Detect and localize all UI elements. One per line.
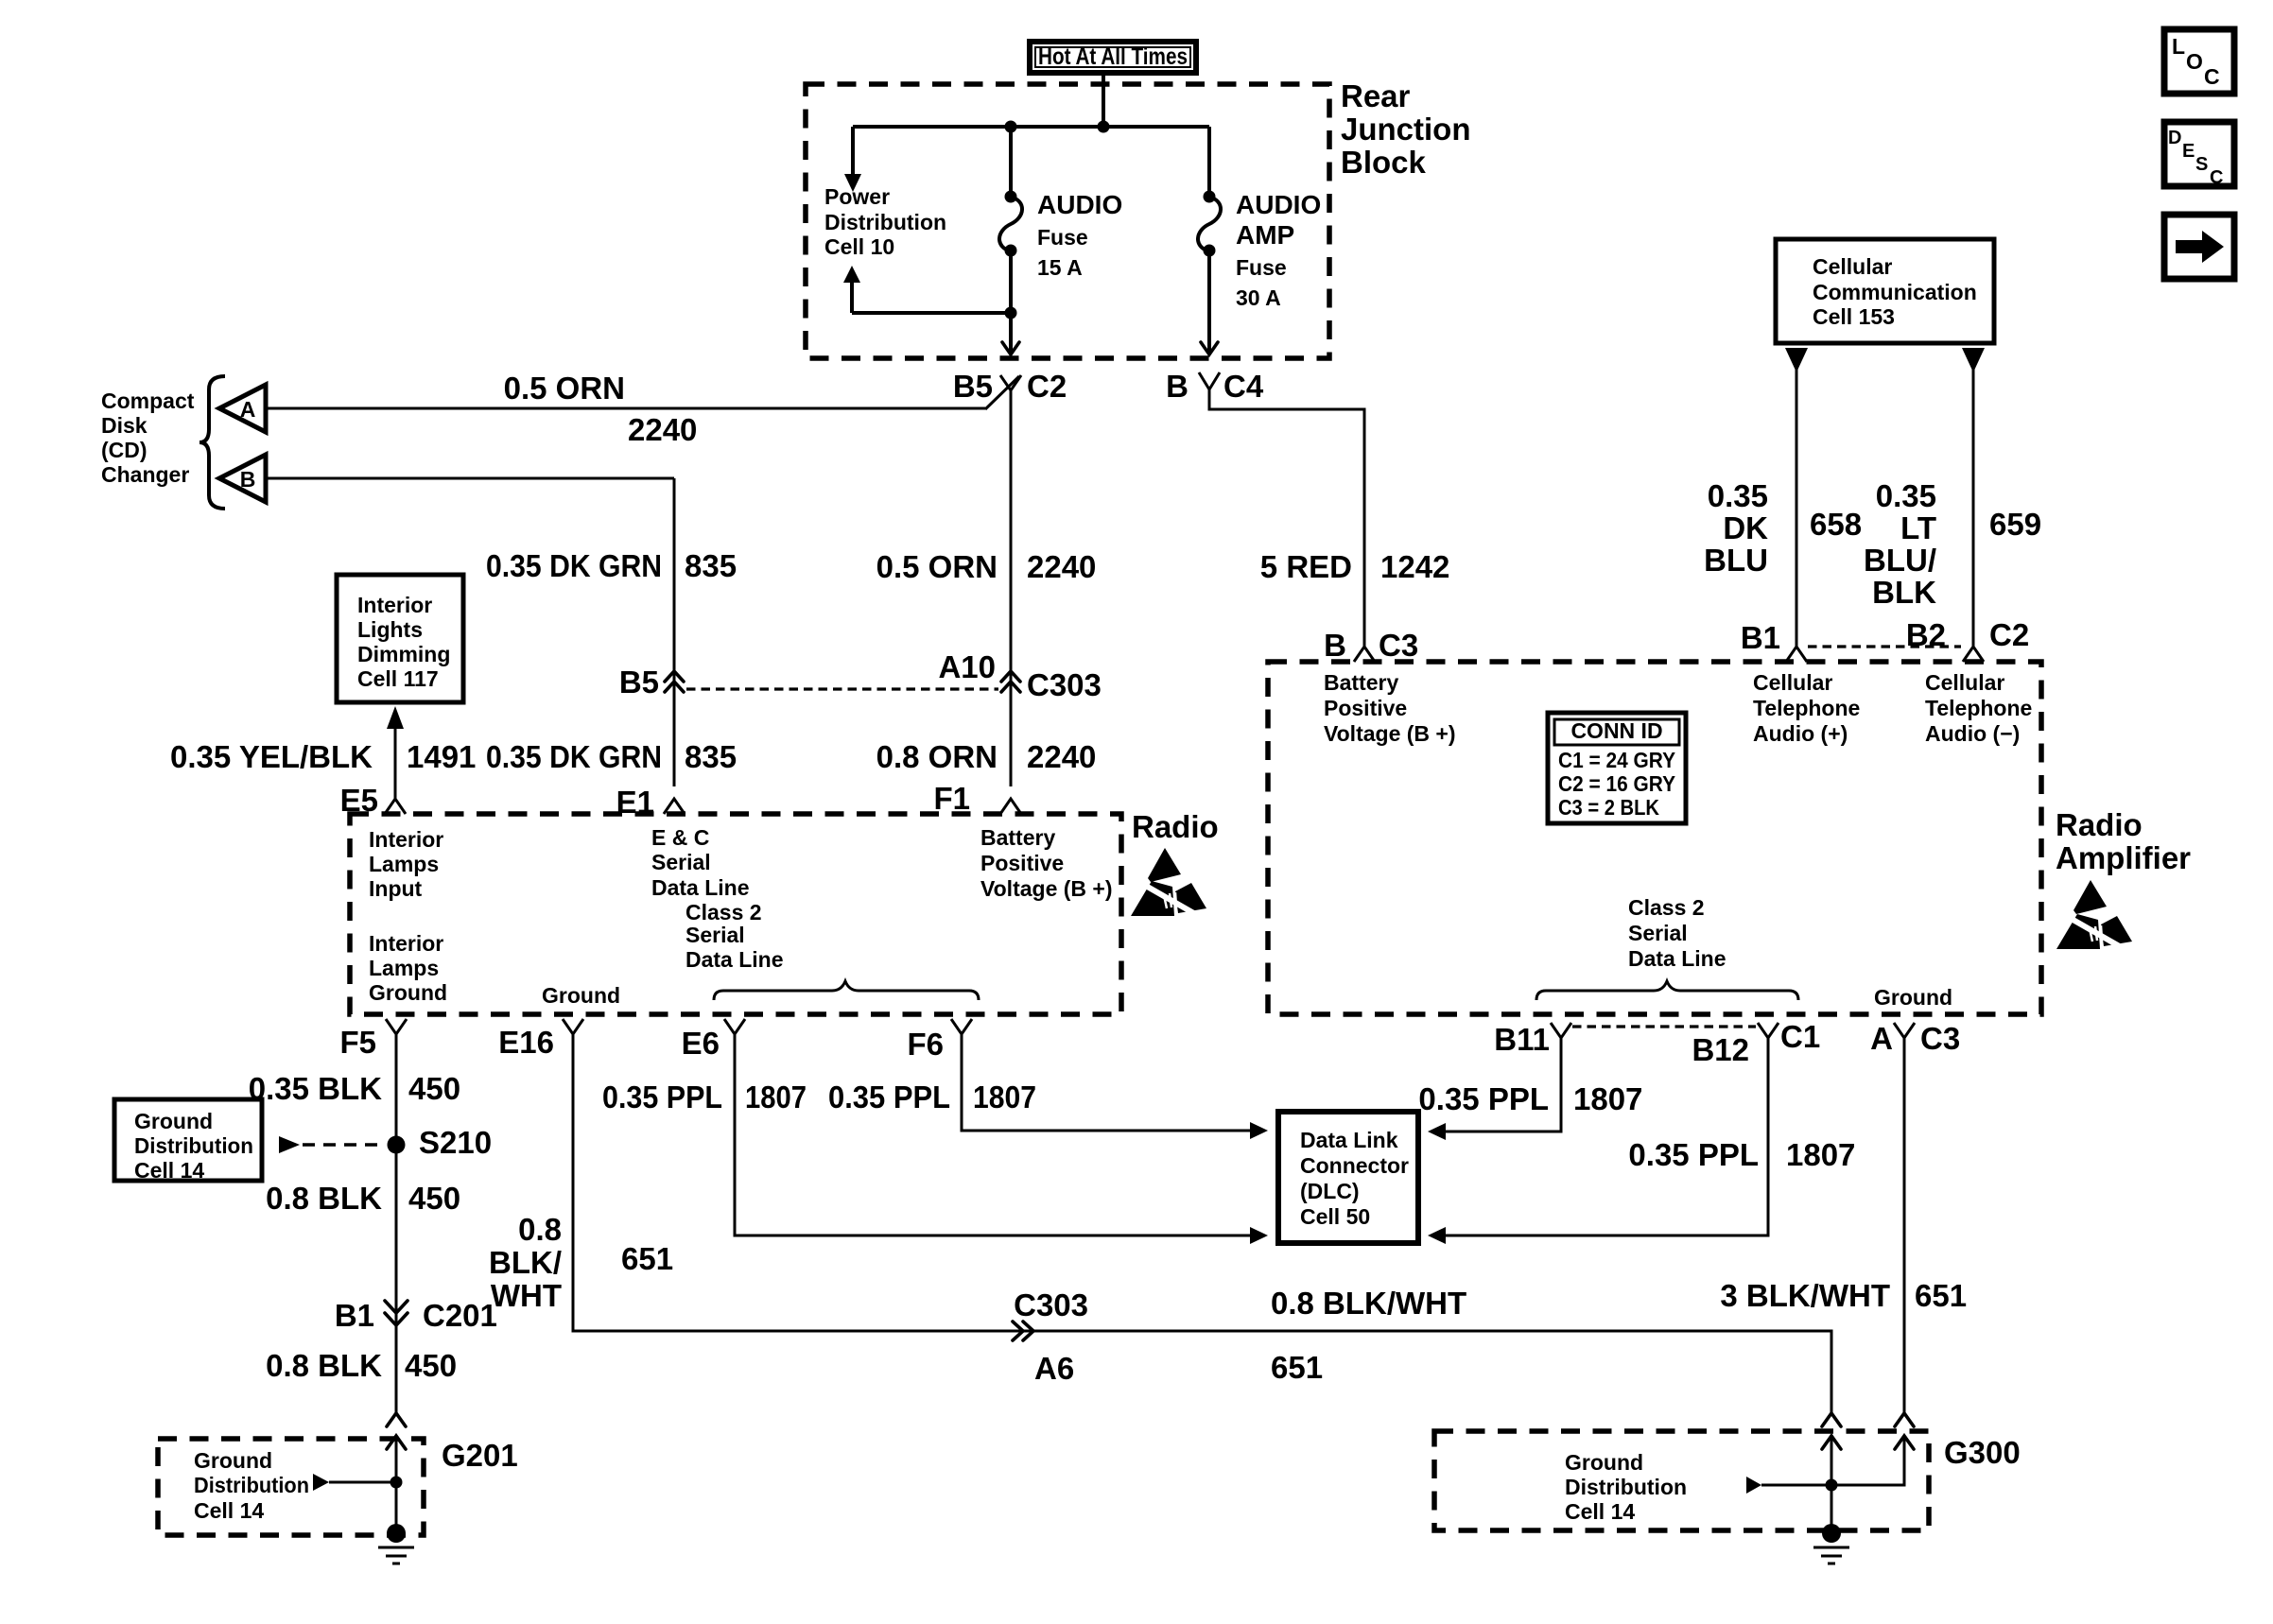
svg-text:651: 651 bbox=[621, 1241, 673, 1276]
svg-text:Battery: Battery bbox=[1324, 670, 1398, 695]
svg-text:1491: 1491 bbox=[407, 739, 476, 774]
svg-text:Cellular: Cellular bbox=[1813, 254, 1892, 279]
svg-text:0.35 PPL: 0.35 PPL bbox=[828, 1080, 950, 1114]
svg-text:E5: E5 bbox=[340, 783, 378, 818]
svg-text:C2 = 16 GRY: C2 = 16 GRY bbox=[1558, 771, 1675, 796]
svg-text:AUDIO: AUDIO bbox=[1037, 190, 1122, 219]
svg-text:O: O bbox=[2186, 49, 2203, 74]
svg-text:2240: 2240 bbox=[1027, 549, 1096, 584]
svg-text:Communication: Communication bbox=[1813, 280, 1977, 304]
svg-text:0.35: 0.35 bbox=[1708, 478, 1768, 513]
svg-text:Dimming: Dimming bbox=[357, 642, 450, 666]
svg-text:1242: 1242 bbox=[1380, 549, 1449, 584]
svg-text:Radio: Radio bbox=[1132, 809, 1219, 844]
svg-text:Fuse: Fuse bbox=[1236, 255, 1287, 280]
svg-text:C1: C1 bbox=[1780, 1019, 1820, 1054]
svg-text:AMP: AMP bbox=[1236, 220, 1294, 250]
svg-text:0.35 DK GRN: 0.35 DK GRN bbox=[486, 548, 662, 583]
svg-text:C2: C2 bbox=[1027, 369, 1067, 404]
svg-text:E1: E1 bbox=[616, 785, 654, 820]
svg-text:Distribution: Distribution bbox=[824, 210, 946, 234]
svg-text:Lamps: Lamps bbox=[369, 956, 439, 980]
svg-text:A: A bbox=[240, 397, 256, 422]
svg-text:835: 835 bbox=[685, 548, 737, 583]
svg-text:Cell 14: Cell 14 bbox=[134, 1158, 204, 1183]
svg-text:B: B bbox=[1166, 369, 1189, 404]
svg-text:Cell 14: Cell 14 bbox=[194, 1498, 264, 1523]
svg-text:G201: G201 bbox=[442, 1438, 518, 1473]
svg-text:B1: B1 bbox=[335, 1298, 374, 1333]
svg-text:Ground: Ground bbox=[134, 1109, 213, 1133]
svg-text:A10: A10 bbox=[938, 649, 996, 684]
svg-text:450: 450 bbox=[408, 1071, 460, 1106]
svg-text:Voltage (B +): Voltage (B +) bbox=[980, 876, 1113, 901]
svg-text:B5: B5 bbox=[953, 369, 993, 404]
svg-text:WHT: WHT bbox=[491, 1278, 562, 1313]
svg-text:Cellular: Cellular bbox=[1925, 670, 2004, 695]
svg-text:C3: C3 bbox=[1920, 1021, 1960, 1056]
svg-text:450: 450 bbox=[408, 1181, 460, 1216]
svg-text:AUDIO: AUDIO bbox=[1236, 190, 1321, 219]
svg-text:F5: F5 bbox=[339, 1025, 376, 1060]
svg-text:15 A: 15 A bbox=[1037, 255, 1083, 280]
svg-text:C: C bbox=[2210, 167, 2223, 188]
svg-text:Junction: Junction bbox=[1341, 112, 1471, 147]
svg-text:C201: C201 bbox=[423, 1298, 497, 1333]
svg-text:(CD): (CD) bbox=[101, 438, 147, 462]
svg-text:0.8 BLK: 0.8 BLK bbox=[266, 1348, 382, 1383]
svg-text:A: A bbox=[1870, 1021, 1893, 1056]
svg-text:2240: 2240 bbox=[628, 412, 697, 447]
svg-text:0.8: 0.8 bbox=[518, 1212, 562, 1247]
svg-text:Interior: Interior bbox=[357, 593, 432, 617]
svg-text:30 A: 30 A bbox=[1236, 285, 1281, 310]
svg-text:C1 = 24 GRY: C1 = 24 GRY bbox=[1558, 748, 1675, 772]
svg-text:C303: C303 bbox=[1027, 667, 1102, 702]
svg-text:Data Line: Data Line bbox=[1628, 946, 1726, 971]
svg-text:Fuse: Fuse bbox=[1037, 225, 1088, 250]
svg-text:C3: C3 bbox=[1379, 628, 1418, 663]
svg-text:Positive: Positive bbox=[980, 851, 1064, 875]
svg-text:Ground: Ground bbox=[1874, 985, 1952, 1010]
svg-text:E6: E6 bbox=[682, 1026, 720, 1061]
svg-text:Connector: Connector bbox=[1300, 1153, 1409, 1178]
svg-text:0.8 BLK/WHT: 0.8 BLK/WHT bbox=[1271, 1286, 1466, 1321]
svg-text:LT: LT bbox=[1900, 510, 1936, 545]
svg-text:Cell 153: Cell 153 bbox=[1813, 304, 1895, 329]
svg-text:659: 659 bbox=[1989, 507, 2041, 542]
svg-text:1807: 1807 bbox=[1786, 1137, 1855, 1172]
svg-text:Cell 50: Cell 50 bbox=[1300, 1204, 1370, 1229]
svg-text:Serial: Serial bbox=[1628, 921, 1688, 945]
svg-text:E: E bbox=[2182, 141, 2195, 162]
svg-text:Lights: Lights bbox=[357, 617, 423, 642]
svg-text:Cell 10: Cell 10 bbox=[824, 234, 894, 259]
svg-text:Amplifier: Amplifier bbox=[2056, 840, 2191, 875]
svg-text:BLU/: BLU/ bbox=[1864, 543, 1936, 578]
svg-text:C: C bbox=[2204, 64, 2220, 89]
svg-text:Radio: Radio bbox=[2056, 807, 2143, 842]
svg-text:0.35 PPL: 0.35 PPL bbox=[1628, 1137, 1759, 1172]
svg-text:Ground: Ground bbox=[1565, 1450, 1643, 1475]
svg-text:Telephone: Telephone bbox=[1753, 696, 1860, 720]
svg-text:B: B bbox=[1324, 628, 1346, 663]
svg-text:Cellular: Cellular bbox=[1753, 670, 1832, 695]
svg-text:Data Link: Data Link bbox=[1300, 1128, 1398, 1152]
svg-text:0.35 BLK: 0.35 BLK bbox=[249, 1071, 382, 1106]
svg-text:Battery: Battery bbox=[980, 825, 1055, 850]
svg-text:F1: F1 bbox=[933, 781, 970, 816]
svg-text:E16: E16 bbox=[498, 1025, 554, 1060]
svg-text:Serial: Serial bbox=[651, 850, 711, 874]
svg-text:C2: C2 bbox=[1989, 617, 2029, 652]
svg-text:Ground: Ground bbox=[194, 1448, 272, 1473]
svg-text:0.35 YEL/BLK: 0.35 YEL/BLK bbox=[170, 739, 373, 774]
svg-text:Compact: Compact bbox=[101, 389, 195, 413]
svg-text:L: L bbox=[2172, 34, 2185, 59]
svg-text:E & C: E & C bbox=[651, 825, 709, 850]
svg-text:Cell 117: Cell 117 bbox=[357, 666, 439, 691]
svg-text:C4: C4 bbox=[1223, 369, 1264, 404]
svg-text:0.8 ORN: 0.8 ORN bbox=[876, 739, 998, 774]
svg-text:5 RED: 5 RED bbox=[1260, 549, 1352, 584]
svg-text:658: 658 bbox=[1810, 507, 1862, 542]
svg-text:0.8 BLK: 0.8 BLK bbox=[266, 1181, 382, 1216]
svg-text:A6: A6 bbox=[1034, 1351, 1074, 1386]
svg-text:Data Line: Data Line bbox=[685, 947, 784, 972]
svg-text:651: 651 bbox=[1915, 1278, 1967, 1313]
svg-text:Positive: Positive bbox=[1324, 696, 1407, 720]
svg-text:DK: DK bbox=[1723, 510, 1768, 545]
svg-text:3 BLK/WHT: 3 BLK/WHT bbox=[1720, 1278, 1890, 1313]
svg-text:Rear: Rear bbox=[1341, 78, 1411, 113]
svg-text:450: 450 bbox=[405, 1348, 457, 1383]
svg-text:0.5 ORN: 0.5 ORN bbox=[876, 549, 998, 584]
svg-text:Cell 14: Cell 14 bbox=[1565, 1499, 1635, 1524]
svg-text:Distribution: Distribution bbox=[134, 1133, 253, 1158]
svg-text:Changer: Changer bbox=[101, 462, 189, 487]
svg-text:Audio (+): Audio (+) bbox=[1753, 721, 1848, 746]
svg-text:1807: 1807 bbox=[973, 1080, 1036, 1114]
svg-text:CONN ID: CONN ID bbox=[1570, 718, 1662, 743]
svg-text:0.5 ORN: 0.5 ORN bbox=[504, 371, 625, 406]
svg-text:Interior: Interior bbox=[369, 931, 443, 956]
svg-text:G300: G300 bbox=[1944, 1435, 2021, 1470]
svg-text:Lamps: Lamps bbox=[369, 852, 439, 876]
svg-text:F6: F6 bbox=[907, 1027, 944, 1062]
svg-text:B12: B12 bbox=[1692, 1032, 1749, 1067]
svg-text:Voltage (B +): Voltage (B +) bbox=[1324, 721, 1456, 746]
svg-text:BLU: BLU bbox=[1704, 543, 1768, 578]
svg-text:651: 651 bbox=[1271, 1350, 1323, 1385]
svg-text:Block: Block bbox=[1341, 145, 1427, 180]
svg-text:S: S bbox=[2195, 154, 2208, 175]
svg-text:Distribution: Distribution bbox=[1565, 1475, 1687, 1499]
svg-text:C3 = 2 BLK: C3 = 2 BLK bbox=[1558, 795, 1659, 820]
svg-text:B2: B2 bbox=[1906, 617, 1946, 652]
svg-text:BLK/: BLK/ bbox=[489, 1245, 562, 1280]
svg-text:Telephone: Telephone bbox=[1925, 696, 2032, 720]
svg-text:2240: 2240 bbox=[1027, 739, 1096, 774]
svg-text:Disk: Disk bbox=[101, 413, 147, 438]
svg-text:(DLC): (DLC) bbox=[1300, 1179, 1360, 1203]
svg-text:Audio (−): Audio (−) bbox=[1925, 721, 2020, 746]
svg-text:Distribution: Distribution bbox=[194, 1473, 309, 1497]
svg-text:Input: Input bbox=[369, 876, 423, 901]
svg-text:C303: C303 bbox=[1014, 1287, 1088, 1322]
svg-text:Class 2: Class 2 bbox=[1628, 895, 1705, 920]
svg-text:Hot At All Times: Hot At All Times bbox=[1038, 43, 1188, 70]
svg-text:1807: 1807 bbox=[745, 1080, 807, 1114]
svg-text:B1: B1 bbox=[1741, 620, 1780, 655]
svg-text:Ground: Ground bbox=[369, 980, 447, 1005]
svg-text:Ground: Ground bbox=[542, 983, 620, 1008]
svg-text:Power: Power bbox=[824, 184, 890, 209]
svg-text:0.35 PPL: 0.35 PPL bbox=[1418, 1081, 1549, 1116]
svg-text:Serial: Serial bbox=[685, 923, 745, 947]
svg-text:Class 2: Class 2 bbox=[685, 900, 762, 924]
svg-text:B5: B5 bbox=[619, 665, 659, 700]
svg-text:Interior: Interior bbox=[369, 827, 443, 852]
svg-text:1807: 1807 bbox=[1573, 1081, 1642, 1116]
svg-text:B11: B11 bbox=[1494, 1022, 1550, 1057]
svg-text:Data Line: Data Line bbox=[651, 875, 750, 900]
svg-text:BLK: BLK bbox=[1872, 575, 1936, 610]
svg-text:0.35 DK GRN: 0.35 DK GRN bbox=[486, 739, 662, 774]
svg-text:0.35 PPL: 0.35 PPL bbox=[602, 1080, 722, 1114]
svg-text:S210: S210 bbox=[419, 1125, 492, 1160]
svg-text:D: D bbox=[2168, 128, 2181, 148]
svg-text:0.35: 0.35 bbox=[1876, 478, 1936, 513]
svg-text:835: 835 bbox=[685, 739, 737, 774]
svg-text:B: B bbox=[240, 467, 256, 492]
